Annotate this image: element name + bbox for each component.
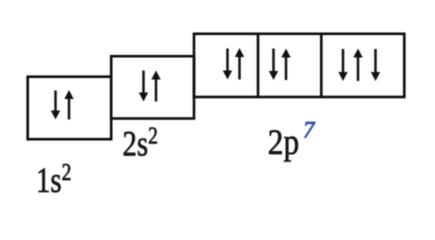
2p cell3 down arrow A [338,49,347,81]
2p cell2 down arrow [269,49,278,81]
orbital box 1s [28,77,112,140]
svg-text:1s2: 1s2 [36,158,71,201]
orbital box 2s [111,56,194,118]
2s down arrow [139,71,148,102]
2p divider 2 [320,34,323,97]
svg-text:2p: 2p [268,123,299,162]
orbital box row 2p [194,34,404,97]
1s down arrow [51,91,60,120]
2p cell3 up arrow [353,49,362,82]
svg-text:2s2: 2s2 [123,121,158,164]
2s up arrow [151,71,160,102]
2p divider 1 [257,34,260,97]
2p cell1 up arrow [235,48,244,80]
2p cell2 up arrow [281,49,290,81]
svg-text:7: 7 [303,118,316,143]
1s up arrow [64,90,73,120]
2p cell3 down arrow B [371,49,380,81]
2p cell1 down arrow [223,49,232,80]
